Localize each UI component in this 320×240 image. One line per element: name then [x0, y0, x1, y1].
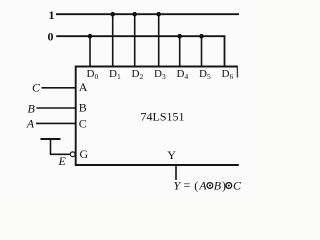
wire input C to pin A [42, 87, 76, 89]
svg-text:A: A [198, 179, 207, 193]
svg-text:B: B [28, 101, 36, 115]
svg-text:C: C [79, 117, 87, 131]
svg-text:G: G [80, 147, 89, 161]
svg-text:=: = [184, 178, 191, 192]
wire to pin D4 [179, 36, 181, 66]
svg-text:B: B [214, 179, 222, 193]
wire input A to pin C [36, 122, 76, 124]
wire output Y [175, 165, 177, 180]
ground bar (E tied low) [41, 138, 61, 140]
inversion bubble at G [70, 152, 75, 157]
junction dot D0 on 0-rail [88, 34, 93, 39]
svg-text:E: E [58, 154, 67, 168]
svg-text:C: C [233, 179, 242, 193]
wire logic-1 rail [56, 13, 239, 15]
wire enable to bubble [51, 139, 71, 154]
wire to pin D3 [158, 14, 160, 66]
junction dot D3 on 1-rail [156, 12, 161, 17]
svg-text:B: B [79, 101, 87, 115]
IC U1 74LS151 body [76, 67, 239, 166]
svg-text:A: A [79, 80, 88, 94]
svg-text:0: 0 [48, 30, 54, 44]
wire to pin D0 [89, 36, 91, 66]
wire to pin D1 [112, 14, 114, 66]
svg-text:C: C [32, 80, 41, 94]
wire to pin D2 [134, 14, 136, 66]
svg-text:1: 1 [49, 8, 55, 22]
wire to pin D5 [201, 36, 203, 66]
svg-text:(: ( [194, 179, 198, 193]
junction dot D2 on 1-rail [132, 12, 137, 17]
svg-text:A: A [26, 116, 35, 130]
junction dot D1 on 1-rail [110, 12, 115, 17]
svg-text:Y: Y [167, 148, 176, 162]
svg-text:74LS151: 74LS151 [141, 110, 185, 124]
wire input B to pin B [37, 107, 76, 109]
junction dot D4 on 0-rail [177, 34, 182, 39]
junction dot D5 on 0-rail [199, 34, 204, 39]
wire logic-0 rail with corner down to D6 [56, 36, 224, 66]
